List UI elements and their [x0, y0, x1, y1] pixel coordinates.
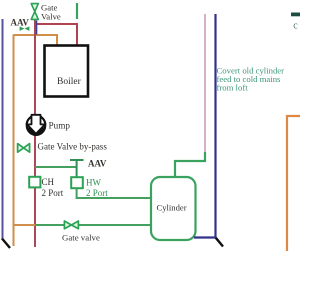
pump P1: [26, 115, 46, 136]
svg-text:Gate Valve by-pass: Gate Valve by-pass: [38, 142, 108, 152]
gate valve by-pass (horizontal bowtie): [18, 144, 30, 153]
wire: cold feed blue vertical (left): [2, 19, 4, 239]
svg-text:Valve: Valve: [41, 12, 61, 22]
svg-text:c: c: [293, 20, 298, 31]
cylinder: [151, 177, 196, 240]
svg-text:Pump: Pump: [49, 120, 71, 130]
svg-text:AAV: AAV: [88, 158, 107, 168]
wire: red top horizontal to boiler: [35, 24, 77, 46]
svg-text:from loft: from loft: [217, 83, 249, 93]
wire: green vent from cylinder top: [175, 152, 205, 177]
svg-text:Cylinder: Cylinder: [157, 203, 187, 213]
wire: orange pipe far right: [287, 116, 300, 251]
svg-text:2 Port: 2 Port: [86, 188, 108, 198]
svg-text:CH: CH: [42, 177, 55, 187]
gate valve GV2 (bottom, horizontal bowtie): [64, 221, 78, 229]
gate valve GV1 (top, vertical bowtie): [31, 4, 38, 20]
wire: pink old pipe vertical: [204, 14, 206, 152]
wire: bottom orange stub: [14, 224, 36, 226]
wire: navy pipe right vertical: [194, 14, 216, 238]
valve HW 2 Port: [71, 177, 83, 188]
boiler: [45, 46, 89, 97]
wire: green from HW valve to cylinder: [77, 188, 152, 198]
wire: orange pipe left vertical: [13, 35, 15, 247]
wire: bottom green pipe to cylinder: [35, 224, 152, 226]
wire: red flow pipe main vertical: [34, 16, 36, 247]
wire: short navy overlay segment: [36, 21, 38, 35]
valve CH 2 Port: [29, 177, 40, 188]
svg-text:2 Port: 2 Port: [42, 188, 64, 198]
svg-text:Boiler: Boiler: [57, 77, 82, 87]
svg-text:HW: HW: [86, 178, 101, 188]
AAV symbol (small green bowtie): [20, 26, 30, 31]
AAV tee symbol (above HW valve): [70, 160, 84, 177]
wire: black diagonal tick bottom-right: [216, 238, 223, 247]
wire: green branch horizontal to HW: [35, 166, 77, 168]
svg-text:Gate valve: Gate valve: [62, 232, 100, 242]
svg-text:AAV: AAV: [11, 17, 30, 27]
wire: black diagonal tick bottom-left: [2, 239, 10, 249]
wire: orange pipe top horizontal to boiler: [14, 35, 58, 46]
wire: green vent stub above boiler: [76, 3, 78, 19]
teal bar top-right: [291, 13, 300, 17]
